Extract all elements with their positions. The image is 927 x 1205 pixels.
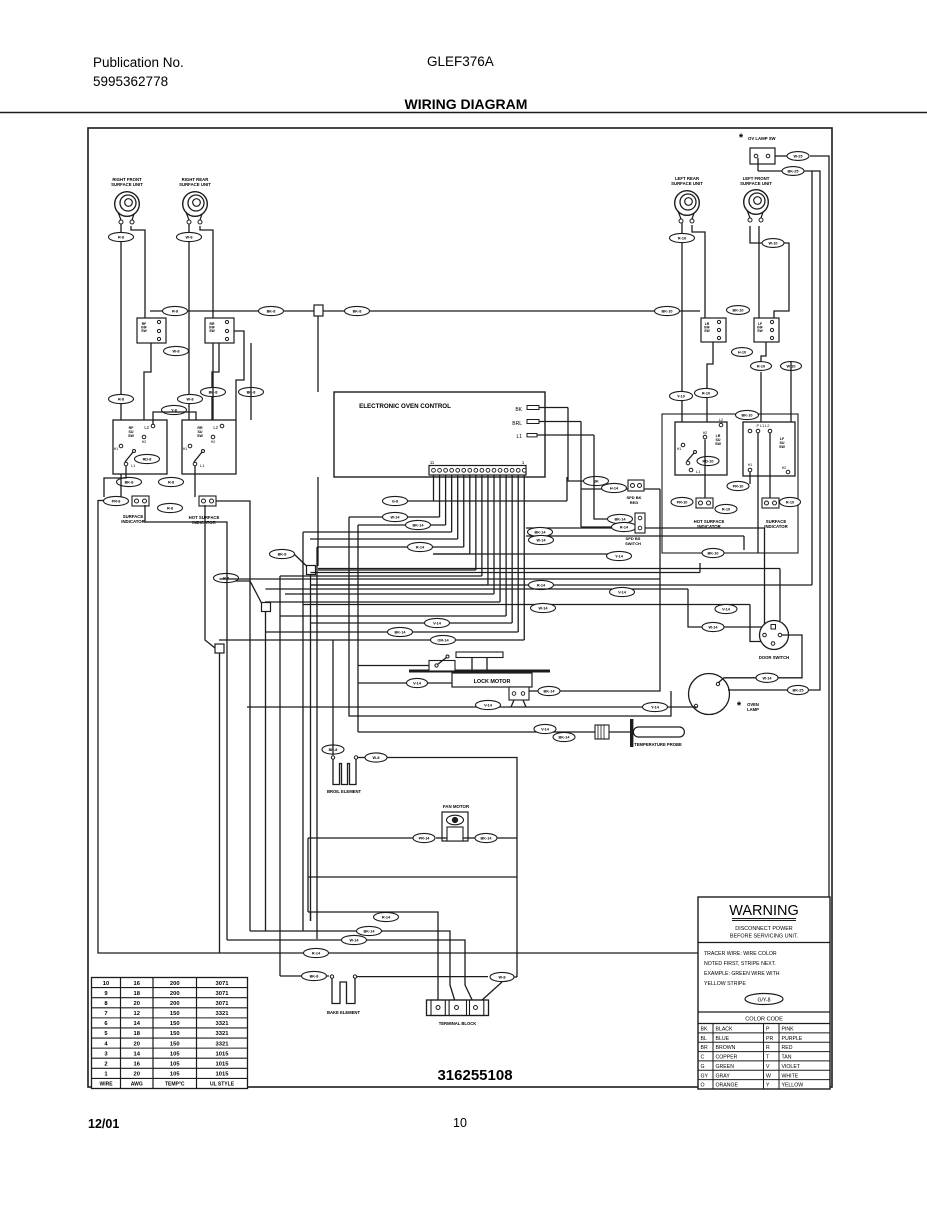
- svg-text:AWG: AWG: [131, 1082, 143, 1088]
- svg-text:H1: H1: [748, 463, 753, 467]
- fan motor inner box: [447, 827, 463, 841]
- lock motor terminal box: [509, 687, 529, 700]
- wire mesh right horiz y554: [434, 551, 632, 560]
- svg-text:TEMP°C: TEMP°C: [165, 1082, 185, 1088]
- svg-text:BK-14: BK-14: [481, 837, 493, 841]
- junction square on main bus: [314, 305, 323, 316]
- svg-text:V-14: V-14: [433, 622, 442, 626]
- svg-text:H1: H1: [183, 447, 188, 451]
- wire label oval RR lead: [177, 232, 202, 241]
- wire mesh EOC drops: [434, 475, 525, 640]
- door switch pin 3: [771, 642, 775, 646]
- svg-text:TERMINAL BLOCK: TERMINAL BLOCK: [439, 1021, 477, 1026]
- svg-text:GREEN: GREEN: [716, 1064, 735, 1070]
- wire into junction B: [226, 581, 262, 603]
- svg-text:R-8: R-8: [167, 507, 173, 511]
- svg-text:R-10: R-10: [757, 365, 765, 369]
- svg-text:L2: L2: [144, 425, 149, 430]
- wire left vertical x303: [302, 532, 304, 931]
- diagram border frame: [88, 128, 832, 1087]
- svg-text:BK-14: BK-14: [364, 930, 376, 934]
- terminal H1 of RR SU SW: [183, 444, 192, 451]
- wire label oval between INF SW right: [727, 306, 750, 315]
- wire label oval inside LR box: [697, 456, 719, 465]
- wire label oval above LR SU SW b: [695, 388, 718, 397]
- terminal L1 of LR SU SW: [689, 468, 701, 474]
- svg-text:1015: 1015: [216, 1061, 230, 1067]
- svg-text:*: *: [739, 132, 744, 144]
- svg-text:SWITCH: SWITCH: [625, 541, 641, 546]
- wire label oval broil left: [322, 745, 344, 754]
- svg-text:BK-10: BK-10: [733, 309, 744, 313]
- hot surface indicator connector right: [696, 498, 713, 508]
- wire label oval SPD BS a: [608, 514, 633, 523]
- oven lamp body: [689, 674, 730, 715]
- wire LF coil left lead down: [750, 226, 762, 243]
- wire cascade y931: [250, 926, 457, 1006]
- wire label oval bus mid-left: [259, 306, 284, 315]
- svg-text:PR: PR: [766, 1036, 773, 1042]
- wire label oval below RR box: [159, 477, 184, 486]
- svg-text:5995362778: 5995362778: [93, 74, 168, 89]
- wire mesh right horiz y604: [303, 603, 762, 641]
- wire mesh right horiz y579: [220, 578, 661, 580]
- svg-text:20: 20: [134, 1001, 140, 1007]
- door switch pin 2: [763, 633, 782, 637]
- svg-text:BK-10: BK-10: [708, 552, 719, 556]
- svg-text:G: G: [701, 1064, 705, 1070]
- wire label oval bus left: [163, 306, 188, 315]
- wire left vertical x250: [216, 501, 250, 931]
- warning and color code panel: [698, 897, 830, 1089]
- wire LF SU SW H1 pin drop: [749, 472, 751, 484]
- svg-text:105: 105: [170, 1061, 180, 1067]
- svg-text:14: 14: [134, 1021, 141, 1027]
- junction square C: [215, 644, 224, 653]
- EOC BK terminal: [515, 406, 568, 414]
- svg-text:BK: BK: [515, 407, 522, 413]
- junction square B: [262, 603, 271, 612]
- terminal H2 of RF SU SW: [142, 435, 147, 444]
- wire label oval BK-25: [782, 167, 804, 176]
- wire label oval LF lead: [762, 239, 784, 248]
- lock motor switch lever: [358, 655, 455, 671]
- wire loop lockmotor inner: [357, 525, 359, 732]
- svg-text:150: 150: [170, 1031, 180, 1037]
- wire label oval LR lead: [670, 233, 695, 242]
- wire LF SU SW L2 pin drop: [769, 433, 771, 498]
- svg-text:R-14: R-14: [382, 916, 391, 920]
- wire EOC BK drop: [568, 408, 585, 482]
- label surface indicator right: [764, 519, 788, 529]
- spd bs switch connector: [635, 513, 645, 533]
- wire label oval PR below boxes: [727, 481, 749, 490]
- wire LR coil right lead down to LR INF SW: [692, 225, 705, 318]
- svg-text:10: 10: [453, 1116, 467, 1130]
- wire mesh right horiz y589: [266, 587, 771, 631]
- label left rear surface unit: [671, 176, 703, 186]
- wire temperature probe lead: [358, 731, 595, 733]
- wire mesh right horiz y536: [526, 535, 744, 550]
- switch lever RR SU SW: [193, 450, 205, 469]
- wire mesh right horiz y585: [311, 580, 813, 589]
- wire RR drop to connector: [194, 466, 196, 497]
- wire LF SU SW L1 pin drop: [757, 433, 759, 553]
- svg-text:SURFACE UNIT: SURFACE UNIT: [111, 182, 143, 187]
- svg-text:Y-10: Y-10: [677, 395, 685, 399]
- svg-text:BROIL ELEMENT: BROIL ELEMENT: [327, 789, 362, 794]
- svg-text:L1: L1: [131, 463, 136, 468]
- label left front surface unit: [740, 176, 772, 186]
- wire RF coil left lead down to RF SU SW H1: [120, 224, 122, 446]
- svg-text:PINK: PINK: [782, 1027, 795, 1033]
- wire label oval below RF INF SW: [164, 346, 189, 355]
- svg-text:20: 20: [134, 1041, 140, 1047]
- wire label oval above RR SU SW col3: [239, 387, 264, 396]
- wire lamp right vertical: [728, 689, 787, 691]
- svg-text:V: V: [766, 1064, 770, 1070]
- wire label oval inside RF indicator: [135, 454, 160, 463]
- wire LF INF SW drop: [761, 342, 766, 361]
- svg-text:H-10: H-10: [738, 351, 746, 355]
- svg-text:150: 150: [170, 1021, 180, 1027]
- svg-text:BK-25: BK-25: [788, 170, 799, 174]
- svg-text:SW: SW: [779, 445, 785, 449]
- svg-text:W-14: W-14: [391, 516, 401, 520]
- wire gauge table: [92, 978, 248, 1089]
- svg-text:316255108: 316255108: [437, 1067, 512, 1084]
- fan motor outer box: [442, 812, 468, 841]
- terminal block lugs: [436, 1006, 478, 1010]
- svg-text:DOOR SWITCH: DOOR SWITCH: [759, 655, 789, 660]
- wire main L1 bus horizontal: [150, 310, 700, 312]
- wire junction A drop: [310, 575, 312, 922]
- lock motor cam bar: [409, 670, 550, 673]
- terminal H2 of LF SU SW: [782, 466, 790, 474]
- svg-text:TRACER WIRE: WIRE COLOR: TRACER WIRE: WIRE COLOR: [704, 951, 777, 957]
- svg-text:SURFACE UNIT: SURFACE UNIT: [740, 181, 772, 186]
- svg-text:7: 7: [104, 1011, 107, 1017]
- svg-text:BK-10: BK-10: [742, 414, 753, 418]
- svg-text:GY: GY: [701, 1073, 709, 1079]
- svg-text:R-10: R-10: [678, 237, 686, 241]
- svg-text:R-10: R-10: [786, 501, 794, 505]
- svg-text:H2: H2: [782, 466, 787, 470]
- label hot surface indicator right: [694, 519, 725, 529]
- svg-text:COPPER: COPPER: [716, 1055, 738, 1061]
- wire left drop from RF L1: [104, 466, 126, 497]
- wire label oval left of lock motor: [407, 678, 428, 687]
- svg-text:V-14: V-14: [413, 682, 422, 686]
- svg-text:W-8: W-8: [186, 236, 193, 240]
- oven lamp terminal upper: [716, 682, 719, 685]
- svg-text:R-8: R-8: [168, 481, 174, 485]
- svg-text:O: O: [701, 1083, 705, 1089]
- wire label oval above LR SU SW a: [670, 391, 693, 400]
- wire bus junction drop: [317, 316, 319, 392]
- wire label oval above RR SU SW col1: [178, 394, 203, 403]
- wire loop lockmotor outer: [349, 517, 671, 716]
- svg-text:BK-8: BK-8: [353, 310, 362, 314]
- svg-text:R-10: R-10: [702, 392, 710, 396]
- svg-text:SW: SW: [209, 329, 215, 333]
- hot surface indicator connector left: [199, 496, 216, 506]
- wire label oval below right pair B: [781, 362, 802, 371]
- wire second right vertical: [804, 171, 820, 690]
- svg-text:SW: SW: [128, 434, 134, 438]
- wire label oval bus mid-right: [345, 306, 370, 315]
- svg-text:SW: SW: [715, 442, 721, 446]
- EOC L1 terminal: [516, 434, 594, 441]
- svg-text:V-14: V-14: [722, 608, 731, 612]
- wire mesh staircase horizontals: [219, 496, 524, 644]
- svg-text:R-8: R-8: [118, 398, 124, 402]
- wire label oval RF lead: [109, 232, 134, 241]
- fan motor eye: [447, 815, 464, 825]
- svg-text:W-25: W-25: [794, 155, 803, 159]
- wire label oval W-25: [787, 152, 809, 161]
- svg-text:BK-14: BK-14: [395, 631, 407, 635]
- wire vertical from bus junction to A: [317, 477, 319, 566]
- svg-text:RED: RED: [782, 1045, 793, 1051]
- svg-text:BK-8: BK-8: [125, 481, 134, 485]
- svg-text:BK-8: BK-8: [310, 975, 319, 979]
- svg-text:YELLOW: YELLOW: [782, 1083, 804, 1089]
- svg-text:16: 16: [134, 1061, 141, 1067]
- svg-text:L1: L1: [516, 434, 522, 440]
- wire label oval right of lamp: [788, 685, 809, 694]
- svg-text:COLOR CODE: COLOR CODE: [745, 1017, 783, 1023]
- wire probe connector to tip: [609, 731, 632, 733]
- svg-text:OV LAMP SW: OV LAMP SW: [748, 136, 777, 141]
- svg-text:W-14: W-14: [537, 539, 547, 543]
- svg-text:SW: SW: [197, 434, 203, 438]
- wire label oval SPD BK a: [584, 476, 609, 485]
- wire label oval broil right: [365, 753, 387, 762]
- svg-text:Y-14: Y-14: [615, 555, 624, 559]
- svg-text:11: 11: [430, 460, 435, 465]
- svg-text:20: 20: [134, 1072, 140, 1078]
- wire label oval hot surface lead: [158, 503, 183, 512]
- terminal block body: [427, 1000, 489, 1016]
- svg-text:GRAY: GRAY: [716, 1073, 731, 1079]
- svg-text:TAN: TAN: [782, 1055, 792, 1061]
- wire label oval below LR INF SW: [732, 348, 753, 357]
- wire mesh right horiz y528: [526, 527, 765, 536]
- infinite switch RR INF SW: [205, 318, 234, 343]
- svg-text:WIRING DIAGRAM: WIRING DIAGRAM: [405, 96, 528, 112]
- wire label oval left of junction B: [214, 573, 239, 582]
- wire right pair leg B: [761, 361, 791, 429]
- oven lamp switch box: [750, 148, 775, 164]
- wire lock motor subbox drains: [511, 700, 526, 707]
- svg-text:BAKE ELEMENT: BAKE ELEMENT: [327, 1010, 360, 1015]
- label OV LAMP SW with asterisk: [739, 132, 777, 144]
- wire label oval on outer box bottom: [702, 548, 724, 557]
- svg-text:200: 200: [170, 1001, 180, 1007]
- wire left vertical x227: [145, 505, 227, 940]
- wire lamp upper feed: [718, 678, 756, 683]
- svg-text:PURPLE: PURPLE: [782, 1036, 803, 1042]
- svg-text:V-14: V-14: [618, 591, 627, 595]
- svg-text:W-14: W-14: [350, 939, 360, 943]
- terminal H2 of LR SU SW: [703, 431, 708, 439]
- svg-text:150: 150: [170, 1011, 180, 1017]
- svg-text:ELECTRONIC OVEN CONTROL: ELECTRONIC OVEN CONTROL: [359, 403, 451, 410]
- svg-text:UL STYLE: UL STYLE: [210, 1082, 235, 1088]
- svg-text:3071: 3071: [216, 991, 230, 997]
- wire fan loop left vertical: [307, 838, 309, 912]
- svg-text:3071: 3071: [216, 981, 230, 987]
- wire LR SU SW H2 pin drop: [704, 440, 706, 499]
- wire label oval probe lead a: [534, 724, 556, 733]
- svg-text:12/01: 12/01: [88, 1117, 119, 1131]
- wire broil left lead up: [332, 640, 334, 755]
- svg-text:BK-14: BK-14: [615, 518, 627, 522]
- label SPD BS SWITCH: [625, 536, 641, 546]
- surface unit RR coil: [183, 192, 208, 224]
- wire label oval right ind lead: [671, 497, 693, 506]
- wire RR INF SW drop: [212, 343, 219, 420]
- wire label oval below RF box: [117, 477, 142, 486]
- svg-text:W-14: W-14: [763, 676, 773, 680]
- wire bake right lead: [357, 977, 502, 1006]
- svg-text:2: 2: [104, 1061, 107, 1067]
- switch lever LR SU SW: [686, 451, 696, 465]
- svg-text:BEFORE SERVICING UNIT.: BEFORE SERVICING UNIT.: [730, 934, 798, 940]
- terminal H1 of LF SU SW: [748, 463, 753, 472]
- svg-text:BK-14: BK-14: [413, 524, 425, 528]
- svg-text:BL: BL: [701, 1036, 707, 1042]
- lock motor plate stem: [472, 658, 487, 670]
- svg-text:H-14: H-14: [610, 487, 619, 491]
- infinite switch LR INF SW: [701, 318, 726, 342]
- infinite switch LF INF SW: [754, 318, 779, 342]
- svg-text:Y: Y: [766, 1083, 770, 1089]
- wire RR INF SW right leg: [234, 331, 244, 420]
- wire label oval above RF SU SW: [109, 394, 134, 403]
- title rule: [0, 112, 927, 114]
- wire left vertical x317: [316, 547, 318, 939]
- svg-text:H1: H1: [677, 447, 682, 451]
- svg-text:16: 16: [134, 981, 141, 987]
- wire fan right vertical lower: [516, 838, 518, 977]
- svg-text:3321: 3321: [216, 1031, 230, 1037]
- svg-text:R: R: [766, 1045, 770, 1051]
- svg-text:LAMP: LAMP: [747, 707, 759, 712]
- wire fan right to vertical: [497, 837, 517, 839]
- infinite switch RF INF SW: [137, 318, 166, 343]
- svg-text:EXAMPLE: GREEN WIRE WITH: EXAMPLE: GREEN WIRE WITH: [704, 971, 780, 977]
- wire SPD BS lead: [594, 477, 608, 519]
- svg-text:W-10: W-10: [769, 242, 778, 246]
- label SPD BK RED: [626, 495, 641, 505]
- wire label oval between connectors: [715, 504, 737, 513]
- surface unit LR coil: [675, 191, 700, 223]
- svg-text:SW: SW: [704, 329, 710, 333]
- svg-text:H2: H2: [142, 440, 147, 444]
- wire junction B drop: [265, 612, 267, 932]
- wire cascade y940: [227, 935, 476, 1007]
- wire label oval SPD BS b: [612, 522, 637, 531]
- svg-text:PR-10: PR-10: [733, 485, 744, 489]
- wire mesh right horiz y489: [581, 489, 660, 579]
- surface unit switch box RF SU SW: [113, 420, 167, 474]
- switch lever RF SU SW: [124, 450, 136, 469]
- wire EOC BRL drop: [580, 422, 582, 528]
- surface indicator connector: [132, 496, 149, 506]
- svg-text:BRL: BRL: [512, 421, 522, 427]
- svg-text:R-14: R-14: [620, 526, 629, 530]
- terminal L2 of LR SU SW: [719, 418, 723, 427]
- svg-text:P L1 L2: P L1 L2: [756, 424, 769, 428]
- wire RR coil left lead down: [188, 224, 190, 446]
- svg-text:DISCONNECT POWER: DISCONNECT POWER: [735, 926, 793, 932]
- svg-text:200: 200: [170, 981, 180, 987]
- svg-text:G/Y-8: G/Y-8: [757, 998, 770, 1004]
- wire label oval bake right: [490, 972, 514, 981]
- terminal L2 of RR SU SW: [213, 424, 223, 430]
- svg-text:LOCK MOTOR: LOCK MOTOR: [474, 679, 511, 685]
- EOC terminal strip: [429, 466, 526, 476]
- wire label oval right of lock motor: [538, 686, 560, 695]
- svg-text:BK-14: BK-14: [544, 690, 556, 694]
- junction square A: [307, 566, 316, 575]
- terminal H1 of LR SU SW: [677, 443, 685, 451]
- svg-text:H1: H1: [114, 447, 119, 451]
- svg-text:FAN MOTOR: FAN MOTOR: [443, 804, 470, 809]
- svg-text:OR-14: OR-14: [437, 639, 449, 643]
- svg-text:BK-8: BK-8: [278, 553, 287, 557]
- wire mesh right horiz y572: [311, 563, 701, 573]
- wire lock motor left lead: [358, 682, 452, 684]
- door switch body: [760, 621, 789, 650]
- surface unit switch box RR SU SW: [182, 420, 236, 474]
- wire lamp left lead: [247, 707, 696, 708]
- svg-text:SURFACE UNIT: SURFACE UNIT: [179, 182, 211, 187]
- wire bake right vertical link: [514, 976, 517, 978]
- wire fanloop bottom: [308, 911, 311, 913]
- svg-text:BK-14: BK-14: [559, 736, 571, 740]
- wire to door switch vertical: [764, 528, 766, 630]
- svg-text:W-14: W-14: [709, 626, 719, 630]
- svg-text:INDICATOR: INDICATOR: [764, 524, 788, 529]
- label right front surface unit: [111, 177, 143, 187]
- svg-text:18: 18: [134, 991, 141, 997]
- svg-text:SW: SW: [141, 329, 147, 333]
- right assembly outer box: [662, 414, 798, 553]
- svg-text:*: *: [737, 700, 742, 712]
- svg-text:R-14: R-14: [416, 546, 425, 550]
- svg-text:105: 105: [170, 1051, 180, 1057]
- label right rear surface unit: [179, 177, 211, 187]
- svg-text:BLUE: BLUE: [716, 1036, 730, 1042]
- oven lamp terminal lower: [694, 704, 697, 707]
- svg-text:R-14: R-14: [312, 952, 321, 956]
- svg-text:R-8: R-8: [172, 310, 178, 314]
- wire RF coil right lead down to RF INF SW: [131, 226, 145, 318]
- temperature probe crossbar: [630, 719, 633, 747]
- terminal L2 of RF SU SW: [144, 424, 154, 430]
- wire RF H1 to indicator: [120, 474, 122, 497]
- EOC BRL terminal: [512, 420, 581, 428]
- surface unit RF coil: [115, 192, 140, 224]
- temperature probe body: [633, 727, 684, 737]
- wire into junction C: [205, 505, 215, 648]
- wire label oval probe lead b: [553, 732, 575, 741]
- svg-text:V-14: V-14: [541, 728, 550, 732]
- surface unit switch box LF SU SW: [743, 422, 795, 476]
